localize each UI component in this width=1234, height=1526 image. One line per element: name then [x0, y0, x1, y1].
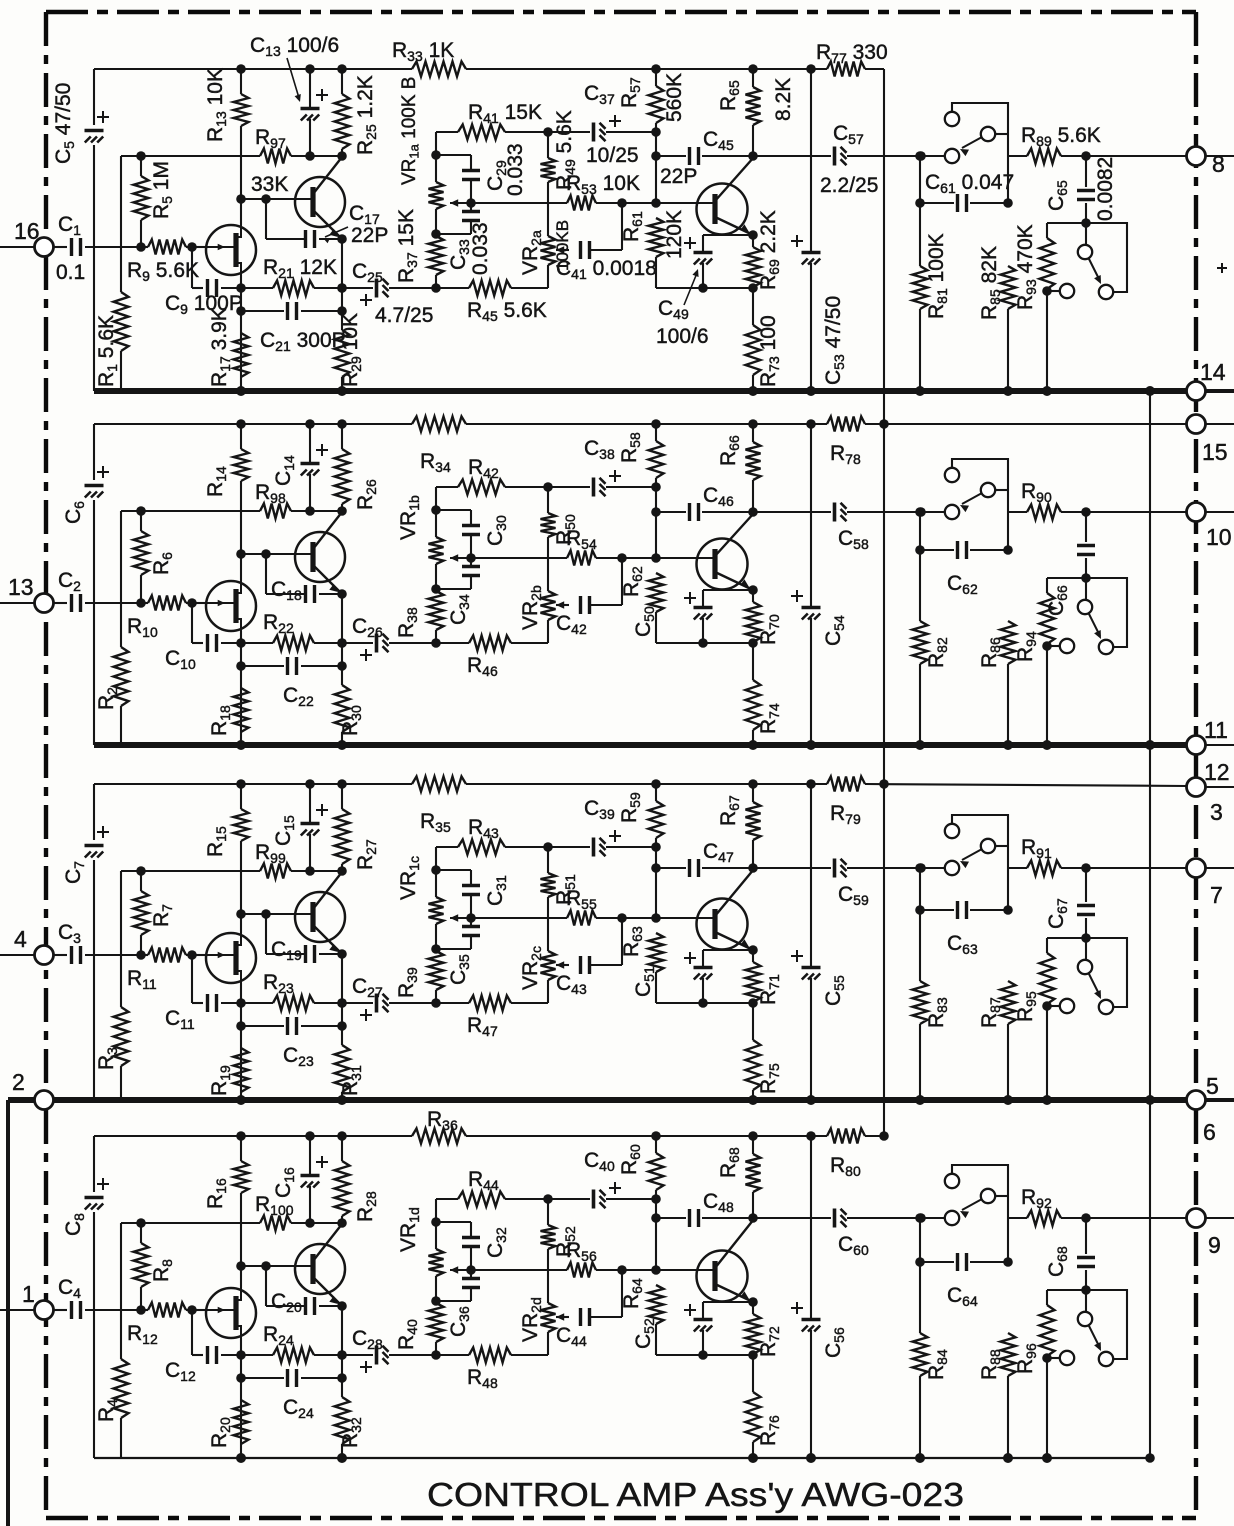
- capacitor C20 22P: [265, 1266, 267, 1306]
- transistor Q8 NPN ch4: [295, 1244, 345, 1294]
- capacitor C21 300P: [241, 310, 284, 312]
- resistor R92 5.6K: [1008, 1217, 1027, 1219]
- wire collector ch4: [313, 1224, 342, 1261]
- resistor R42 15K: [436, 486, 458, 488]
- node source C9/C21: [236, 283, 246, 293]
- wire collector ch2: [313, 512, 342, 549]
- svg-text:R13 10K: R13 10K: [204, 68, 229, 142]
- capacitor C13 100/6: [309, 69, 311, 107]
- svg-text:CONTROL AMP Ass'y AWG-023: CONTROL AMP Ass'y AWG-023: [427, 1476, 964, 1513]
- wire gate ch1: [192, 246, 208, 248]
- resistor R25 1.2K: [341, 69, 343, 94]
- transistor Q3 FET ch2: [206, 581, 256, 631]
- wire collector output ch2: [715, 513, 754, 556]
- capacitor C68 0.0082: [1085, 1218, 1087, 1254]
- wire emitter ch1: [313, 210, 342, 239]
- capacitor C35 0.033: [470, 918, 472, 926]
- wire to switch pole ch3: [921, 867, 945, 869]
- wire emitter output ch2: [715, 572, 753, 590]
- svg-text:R33 1K: R33 1K: [392, 39, 454, 64]
- terminal 14: [1187, 382, 1206, 401]
- plus mark right edge: [1217, 267, 1227, 269]
- transistor Q3 NPN output ch1: [697, 184, 748, 235]
- svg-text:0.1: 0.1: [56, 261, 85, 284]
- capacitor C65 0.0082: [1085, 156, 1087, 187]
- resistor R74 100: [752, 643, 754, 680]
- wire feedback line ch2: [121, 510, 260, 512]
- capacitor C55 47/50 rail filter: [810, 784, 812, 966]
- capacitor C61 0.047: [920, 202, 954, 204]
- capacitor C24 300P: [241, 1377, 284, 1379]
- resistor R75 100: [752, 1003, 754, 1040]
- wire to switch pole ch4: [921, 1217, 945, 1219]
- resistor R6 1M: [140, 511, 142, 531]
- capacitor C57 2.2/25: [753, 155, 831, 157]
- capacitor C30 0.033: [436, 509, 471, 511]
- resistor R90 5.6K: [1008, 511, 1027, 513]
- resistor R41 15K: [436, 131, 458, 133]
- capacitor C3 0.1 input: [53, 954, 67, 956]
- svg-text:3: 3: [1210, 799, 1223, 825]
- resistor R47 5.6K: [436, 1002, 469, 1004]
- resistor R52 5.6K: [543, 1194, 553, 1204]
- title CONTROL AMP Ass'y AWG-023: [427, 1476, 964, 1513]
- resistor R36 1K top rail: [412, 1129, 466, 1144]
- switch S3b: [1085, 938, 1087, 960]
- resistor R56 10K: [567, 1263, 596, 1278]
- terminal 8: [1187, 147, 1206, 166]
- transistor Q6 NPN ch3: [295, 892, 345, 942]
- terminal 1: [0, 1309, 34, 1311]
- resistor R96 470K: [1046, 1290, 1048, 1305]
- resistor R14 10K: [240, 424, 242, 449]
- capacitor C52 100/6: [703, 1301, 753, 1303]
- capacitor C36 0.033: [470, 1270, 472, 1278]
- svg-text:R49 5.6K: R49 5.6K: [553, 110, 578, 190]
- svg-text:R81 100K: R81 100K: [925, 233, 950, 319]
- wire input to gate ch4: [141, 1309, 148, 1311]
- wire drain to R15 ch3: [240, 914, 242, 933]
- resistor R51 5.6K: [543, 842, 553, 852]
- resistor R11 5.6K: [148, 948, 186, 963]
- resistor R8 1M: [140, 1223, 142, 1243]
- resistor R37 15K: [429, 236, 444, 275]
- resistor R65 8.2K: [752, 69, 754, 87]
- capacitor C59 2.2/25: [753, 867, 831, 869]
- capacitor C7 47/50: [85, 844, 104, 848]
- wire switch2 frame ch1: [1047, 222, 1086, 224]
- svg-text:R77 330: R77 330: [816, 41, 888, 66]
- switch S2b: [1085, 578, 1087, 600]
- svg-text:R25 1.2K: R25 1.2K: [354, 75, 379, 155]
- resistor R32 10K: [335, 1397, 350, 1444]
- node gate R11: [136, 950, 146, 960]
- resistor R63 120K: [649, 933, 664, 972]
- capacitor C39 10/25: [548, 846, 590, 848]
- resistor R59 560K: [655, 784, 657, 801]
- svg-text:8.2K: 8.2K: [772, 78, 795, 121]
- node drain base ch2: [236, 419, 246, 429]
- node feedback C15: [305, 866, 315, 876]
- capacitor C67 0.0082: [1085, 868, 1087, 902]
- potentiometer VR1d 100K B: [435, 1199, 437, 1222]
- svg-text:2.2/25: 2.2/25: [820, 174, 878, 197]
- resistor R40 15K: [429, 1303, 444, 1342]
- wire switch2 frame ch2: [1047, 577, 1086, 579]
- capacitor C16 100/6: [309, 1136, 311, 1174]
- resistor R35 1K top rail: [412, 777, 466, 792]
- capacitor C41 0.0018: [579, 241, 582, 259]
- potentiometer VR2a: [541, 236, 556, 265]
- wire switch2 frame ch3: [1047, 937, 1086, 939]
- svg-text:C41 0.0018: C41 0.0018: [556, 257, 657, 282]
- wire wiper line ch1: [450, 202, 567, 204]
- wire base line ch4: [241, 1265, 313, 1267]
- svg-text:R93 470K: R93 470K: [1014, 224, 1039, 310]
- svg-text:0.033: 0.033: [504, 143, 527, 196]
- svg-text:6: 6: [1203, 1119, 1216, 1145]
- wire drain to R14 ch2: [240, 554, 242, 581]
- resistor R69 2.2K: [752, 235, 754, 247]
- node drain base ch4: [236, 1131, 246, 1141]
- resistor R31 10K: [335, 1045, 350, 1092]
- capacitor C66 0.0082: [1085, 512, 1087, 542]
- svg-text:22P: 22P: [351, 224, 388, 247]
- svg-text:VR1a 100K B: VR1a 100K B: [399, 77, 421, 185]
- svg-text:22P: 22P: [660, 165, 697, 188]
- svg-text:120K: 120K: [663, 210, 686, 259]
- resistor R62 120K: [649, 573, 664, 612]
- resistor R76 100: [752, 1355, 754, 1392]
- svg-text:R89 5.6K: R89 5.6K: [1021, 124, 1101, 149]
- capacitor C27 4.7/25 coupling: [342, 1002, 373, 1004]
- resistor R61 120K: [649, 218, 664, 257]
- wire R62 corner to emitter ch2: [656, 642, 753, 644]
- wire emitter output ch4: [715, 1284, 753, 1302]
- wire gate ch2: [192, 602, 208, 604]
- capacitor C19 22P: [265, 914, 267, 954]
- svg-text:R73 100: R73 100: [757, 315, 782, 387]
- resistor R24 12K: [241, 1354, 273, 1356]
- resistor R2 5.6K: [120, 511, 122, 647]
- resistor R3 5.6K: [120, 871, 122, 1007]
- resistor R57 560K: [655, 69, 657, 86]
- wire left vertical rail ch1: [93, 69, 95, 125]
- resistor R33 1K top rail: [412, 62, 466, 77]
- transistor Q7 FET ch4: [206, 1288, 256, 1338]
- resistor R7 1M: [140, 871, 142, 891]
- wire ground rail ch2: [94, 742, 1187, 748]
- svg-text:5: 5: [1206, 1073, 1219, 1099]
- capacitor C58 2.2/25: [753, 511, 831, 513]
- resistor R43 15K: [436, 846, 458, 848]
- resistor R45 5.6K: [436, 287, 469, 289]
- resistor R80 330: [827, 1129, 865, 1144]
- terminal 12: [1187, 778, 1206, 797]
- svg-text:C61 0.047: C61 0.047: [925, 171, 1014, 196]
- resistor R77 330: [827, 62, 865, 77]
- resistor R44 15K: [436, 1198, 458, 1200]
- resistor R15 10K: [240, 784, 242, 809]
- potentiometer VR2c: [541, 951, 556, 980]
- terminal 9: [1187, 1209, 1206, 1228]
- capacitor C62 0.047: [920, 549, 954, 551]
- capacitor C5 47/50: [85, 129, 104, 133]
- svg-text:33K: 33K: [251, 173, 288, 196]
- wire wiper line ch2: [450, 557, 567, 559]
- resistor R38 15K: [429, 591, 444, 630]
- resistor R86 82K: [1001, 621, 1016, 664]
- wire emitter vertical ch4: [341, 1306, 343, 1397]
- potentiometer VR2b: [541, 591, 556, 620]
- resistor R21 12K: [241, 287, 273, 289]
- capacitor C37 10/25: [548, 131, 590, 133]
- resistor R27 1.2K: [341, 784, 343, 809]
- wire R61 corner to emitter ch1: [656, 287, 753, 289]
- svg-text:14: 14: [1200, 359, 1226, 385]
- wire source down ch4: [240, 1338, 242, 1458]
- terminal 7: [1187, 859, 1206, 878]
- svg-text:10/25: 10/25: [586, 144, 639, 167]
- resistor R54 10K: [567, 551, 596, 566]
- svg-text:0.033: 0.033: [469, 222, 492, 275]
- resistor R70 2.2K: [752, 590, 754, 602]
- capacitor C15 100/6: [309, 784, 311, 822]
- node feedback R5: [136, 151, 146, 161]
- resistor R67 8.2K: [752, 784, 754, 802]
- svg-text:100/6: 100/6: [656, 325, 709, 348]
- wire R63 corner to emitter ch3: [656, 1002, 753, 1004]
- node emitter ch3: [337, 949, 347, 959]
- wire gate ch3: [192, 954, 208, 956]
- capacitor C49 100/6: [703, 234, 753, 236]
- capacitor C60 2.2/25: [753, 1217, 831, 1219]
- capacitor C29 0.033: [436, 154, 471, 156]
- terminal 15: [1187, 415, 1206, 434]
- capacitor C40 10/25: [548, 1198, 590, 1200]
- resistor R30 10K: [335, 685, 350, 732]
- wire ground rail ch1: [94, 388, 1187, 394]
- node drain base ch3: [236, 779, 246, 789]
- resistor R94 470K: [1046, 578, 1048, 593]
- wire left vertical rail ch2: [93, 424, 95, 480]
- resistor R79 330: [827, 777, 865, 792]
- wire left vertical rail ch3: [93, 784, 95, 840]
- wire emitter vertical ch1: [341, 239, 343, 330]
- wire emitter ch3: [313, 925, 342, 954]
- resistor R46 5.6K: [436, 642, 469, 644]
- capacitor C17 22P: [265, 199, 267, 239]
- node emitter ch4: [337, 1301, 347, 1311]
- node feedback R7: [136, 866, 146, 876]
- resistor R16 10K: [240, 1136, 242, 1161]
- terminal 11: [1187, 736, 1206, 755]
- resistor R99 33K: [260, 864, 291, 879]
- svg-text:R17 3.9K: R17 3.9K: [208, 307, 233, 387]
- transistor Q5 NPN output ch2: [697, 539, 748, 590]
- resistor R17 3.9K: [234, 333, 249, 377]
- svg-text:R45 5.6K: R45 5.6K: [467, 299, 547, 324]
- wire collector ch1: [313, 157, 342, 194]
- resistor R39 15K: [429, 951, 444, 990]
- capacitor C4 0.1 input: [53, 1309, 67, 1311]
- node feedback C16: [305, 1218, 315, 1228]
- resistor R66 8.2K: [752, 424, 754, 442]
- resistor R68 8.2K: [752, 1136, 754, 1154]
- svg-text:13: 13: [8, 574, 34, 600]
- resistor R9 5.6K: [148, 240, 186, 255]
- transistor Q5 FET ch3: [206, 933, 256, 983]
- capacitor C14 100/6: [309, 424, 311, 462]
- wire ground rail ch3 terminal2 to terminal5: [8, 1097, 35, 1103]
- wire top rail ch1: [94, 68, 412, 70]
- svg-text:0.0082: 0.0082: [1094, 157, 1117, 221]
- resistor R50 5.6K: [543, 482, 553, 492]
- resistor R85 82K: [1001, 266, 1016, 309]
- resistor R34 1K top rail: [412, 417, 466, 432]
- svg-text:16: 16: [14, 218, 40, 244]
- svg-text:C5 47/50: C5 47/50: [52, 83, 77, 164]
- potentiometer VR1b 100K B: [435, 487, 437, 510]
- svg-text:7: 7: [1210, 882, 1223, 908]
- resistor R26 1.2K: [341, 424, 343, 449]
- wire collector output ch4: [715, 1219, 754, 1268]
- resistor R10 5.6K: [148, 596, 186, 611]
- wire source down ch3: [240, 983, 242, 1100]
- resistor R82 100K: [919, 512, 921, 621]
- wire feedback line ch4: [121, 1222, 260, 1224]
- svg-text:4: 4: [14, 926, 27, 952]
- wire R64 corner to emitter ch4: [656, 1354, 753, 1356]
- wire source down ch1: [240, 275, 242, 391]
- capacitor C31 0.033: [436, 869, 471, 871]
- resistor R89 5.6K: [1008, 155, 1027, 157]
- svg-text:15: 15: [1202, 439, 1228, 465]
- resistor R22 12K: [241, 642, 273, 644]
- wire feedback line ch3: [121, 870, 260, 872]
- capacitor C6 47/50: [85, 484, 104, 488]
- node source C10/C22: [236, 638, 246, 648]
- switch S1b: [1085, 223, 1087, 245]
- capacitor C48 22P: [656, 1217, 686, 1219]
- svg-text:R1 5.6K: R1 5.6K: [95, 315, 120, 387]
- wire to switch pole ch1: [921, 155, 945, 157]
- svg-text:12: 12: [1204, 759, 1230, 785]
- resistor R71 2.2K: [752, 950, 754, 962]
- svg-text:560K: 560K: [663, 73, 686, 122]
- resistor R64 120K: [649, 1285, 664, 1324]
- node feedback R8: [136, 1218, 146, 1228]
- switch S4a: [945, 1211, 959, 1225]
- node feedback C14: [305, 506, 315, 516]
- wire base line ch3: [241, 913, 313, 915]
- resistor R18 3.9K: [234, 688, 249, 732]
- resistor R55 10K: [567, 911, 596, 926]
- svg-text:R9 5.6K: R9 5.6K: [127, 259, 199, 284]
- svg-text:1: 1: [22, 1281, 35, 1307]
- resistor R12 5.6K: [148, 1303, 186, 1318]
- capacitor C50 100/6: [703, 589, 753, 591]
- terminal 13: [0, 602, 34, 604]
- wire wiper line ch3: [450, 917, 567, 919]
- transistor Q2 NPN ch1: [295, 177, 345, 227]
- svg-text:R37 15K: R37 15K: [395, 209, 420, 283]
- wire gate ch4: [192, 1309, 208, 1311]
- svg-text:R5 1M: R5 1M: [150, 161, 175, 219]
- svg-text:R21 12K: R21 12K: [263, 256, 337, 281]
- wire drain to R13 ch1: [240, 199, 242, 225]
- wire wiper line ch4: [450, 1269, 567, 1271]
- wire base line ch1: [241, 198, 313, 200]
- wire feedback line ch1: [121, 155, 260, 157]
- wire source down ch2: [240, 631, 242, 745]
- capacitor C43 0.0018: [579, 956, 582, 974]
- wire collector ch3: [313, 872, 342, 909]
- capacitor C45 22P: [656, 155, 686, 157]
- resistor R58 560K: [655, 424, 657, 441]
- capacitor C10 100P: [191, 603, 193, 643]
- resistor R49 5.6K: [543, 127, 553, 137]
- potentiometer VR1c 100K B: [435, 847, 437, 870]
- capacitor C8 47/50: [85, 1196, 104, 1200]
- capacitor C11 100P: [191, 955, 193, 1003]
- capacitor C18 22P: [265, 554, 267, 594]
- capacitor C12 100P: [191, 1310, 193, 1355]
- resistor R81 100K: [919, 156, 921, 266]
- switch S3a: [945, 861, 959, 875]
- node gate R12: [136, 1305, 146, 1315]
- svg-text:4.7/25: 4.7/25: [375, 304, 433, 327]
- wire emitter vertical ch3: [341, 954, 343, 1045]
- terminal 10: [1187, 503, 1206, 522]
- potentiometer VR2d: [541, 1303, 556, 1332]
- svg-text:R69 2.2K: R69 2.2K: [757, 210, 782, 290]
- node gate R10: [136, 598, 146, 608]
- transistor Q9 NPN output ch4: [697, 1251, 748, 1302]
- resistor R97 33K: [260, 149, 291, 164]
- resistor R29 10K: [335, 330, 350, 377]
- node drain base ch1: [236, 64, 246, 74]
- wire emitter vertical ch2: [341, 594, 343, 685]
- node emitter ch1: [337, 234, 347, 244]
- resistor R19 3.9K: [234, 1048, 249, 1092]
- resistor R98 33K: [260, 504, 291, 519]
- resistor R88 82K: [1001, 1333, 1016, 1376]
- capacitor C32 0.033: [436, 1221, 471, 1223]
- wire ground vertical right: [1149, 391, 1151, 1458]
- svg-text:C53 47/50: C53 47/50: [822, 296, 847, 385]
- resistor R100 33K: [260, 1216, 291, 1231]
- resistor R93 470K: [1046, 223, 1048, 238]
- capacitor C64 0.047: [920, 1261, 954, 1263]
- resistor R23 12K: [241, 1002, 273, 1004]
- capacitor C22 300P: [241, 665, 284, 667]
- capacitor C28 4.7/25 coupling: [342, 1354, 373, 1356]
- terminal 5: [1187, 1091, 1206, 1110]
- wire collector output ch1: [715, 157, 754, 201]
- wire emitter ch2: [313, 565, 342, 594]
- wire drain to R16 ch4: [240, 1266, 242, 1288]
- terminal 2: [35, 1091, 54, 1110]
- resistor R13 10K: [240, 69, 242, 94]
- svg-text:R41 15K: R41 15K: [468, 101, 542, 126]
- wire input to gate ch2: [141, 602, 148, 604]
- capacitor C51 100/6: [703, 949, 753, 951]
- resistor R60 560K: [655, 1136, 657, 1153]
- terminal 16: [0, 246, 34, 248]
- svg-text:C13 100/6: C13 100/6: [250, 34, 339, 59]
- capacitor C2 0.1 input: [53, 602, 67, 604]
